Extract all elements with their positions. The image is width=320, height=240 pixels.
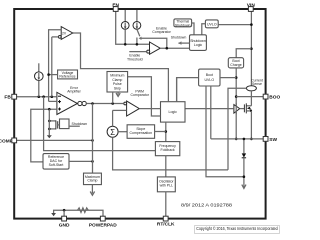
label GND [59, 223, 70, 229]
wire SW line [211, 138, 263, 140]
wire SS node to ground [48, 109, 50, 135]
pin POWERPAD [100, 216, 105, 221]
wire internal ground net [54, 209, 103, 216]
label EN [112, 3, 119, 9]
svg-text:Foldback: Foldback [160, 148, 174, 152]
boot UVLO block [177, 69, 237, 102]
label Enable Comparator [152, 26, 171, 34]
svg-text:Compensation: Compensation [130, 131, 153, 135]
wire FB input [17, 95, 57, 98]
svg-text:Oscillator: Oscillator [159, 179, 174, 183]
drawing number note [181, 203, 233, 208]
svg-text:Soft-Start: Soft-Start [49, 163, 64, 167]
label VIN [247, 3, 256, 9]
ground [47, 135, 52, 138]
pin EN [113, 7, 118, 12]
label Error Amplifier [67, 86, 81, 94]
svg-text:Clamp: Clamp [112, 78, 122, 82]
transistor Q1 power MOSFET [244, 91, 252, 140]
wire COMP net [17, 104, 94, 174]
resistor R1 gnd to powerpad [78, 208, 89, 213]
wire boot rail vertical [235, 68, 238, 140]
label POWERPAD [89, 223, 117, 229]
svg-text:POWERPAD: POWERPAD [89, 223, 117, 229]
svg-text:Threshold: Threshold [127, 57, 143, 61]
wire boot UVLO sense lines [206, 86, 244, 177]
wire VIN rail down to current sense [250, 12, 253, 86]
shutdown pulldown block [60, 119, 88, 129]
wire FB to frequency foldback [44, 97, 156, 151]
PWM comparator U3 [124, 101, 161, 116]
slope compensation block [127, 125, 166, 139]
current sense element [228, 86, 256, 170]
pin VIN [248, 7, 253, 12]
current source I1 [121, 10, 129, 44]
svg-text:Σ: Σ [110, 128, 115, 137]
svg-text:Copyright © 2016, Texas Instru: Copyright © 2016, Texas Instruments Inco… [196, 226, 278, 231]
wire vref to error amp [49, 100, 57, 102]
label FB [4, 95, 11, 101]
transistor Q2 soft-start discharge [48, 120, 60, 131]
svg-text:Comparator: Comparator [130, 93, 149, 97]
svg-text:RT/CLK: RT/CLK [157, 221, 175, 227]
wire current sense feedback to summer [113, 137, 228, 170]
svg-text:Shutdown: Shutdown [175, 23, 191, 27]
svg-text:2V: 2V [62, 32, 67, 36]
svg-text:with PLL: with PLL [160, 184, 173, 188]
wire min clamp to logic [128, 77, 161, 116]
copyright note [196, 226, 278, 231]
boot charge block [228, 58, 243, 68]
wire EN pin to enable comparator [116, 12, 150, 45]
label RT/CLK [157, 221, 175, 227]
shutdown signal arrow [171, 36, 190, 45]
label PWM Comparator [130, 89, 149, 97]
svg-text:Amplifier: Amplifier [67, 90, 81, 94]
svg-text:Minimum: Minimum [110, 73, 124, 77]
svg-text:SW: SW [269, 137, 277, 143]
svg-text:FB: FB [4, 95, 11, 101]
svg-text:Shutdown: Shutdown [72, 122, 88, 126]
summing node sigma [107, 110, 127, 137]
svg-text:Boot: Boot [206, 73, 213, 77]
enable comparator U1 [129, 42, 189, 54]
oscillator block [157, 177, 175, 216]
current source I3 FB bias [35, 63, 44, 96]
shutdown logic block [190, 35, 207, 51]
maximum clamp block [84, 173, 102, 195]
pin SW [263, 137, 268, 142]
svg-text:Skip: Skip [114, 87, 121, 91]
label Enable Threshold [127, 54, 143, 62]
svg-text:Comparator: Comparator [152, 30, 171, 34]
reference DAC block [43, 154, 94, 170]
wire soft-start DAC to error amp [31, 108, 57, 162]
wire logic to driver [185, 108, 234, 110]
switch control wire from enable comparator output [139, 37, 167, 48]
wire boot UVLO to logic [176, 78, 178, 102]
node EN divider junction dots [124, 43, 138, 46]
wire VIN to boot charge [236, 49, 251, 58]
voltage reference block [47, 70, 77, 79]
UVLO block [202, 20, 252, 35]
diode D1 catch diode [242, 138, 246, 189]
frequency foldback block [155, 142, 179, 177]
label Current Sense [251, 79, 263, 87]
svg-text:UVLO: UVLO [207, 22, 217, 26]
minimum clamp pulse skip block [107, 72, 128, 104]
label COMP [0, 138, 14, 144]
pin BOOT [263, 94, 268, 99]
svg-text:Logic: Logic [194, 43, 203, 47]
wire logic to oscillator chain [165, 122, 168, 142]
pin FB [12, 94, 17, 99]
copyright frame [195, 226, 280, 234]
ground [51, 213, 56, 216]
wire 2V clamp output to logic [73, 33, 169, 102]
label BOOT [269, 95, 283, 101]
svg-text:Shutdown: Shutdown [171, 36, 187, 40]
gate driver U2 [234, 103, 245, 114]
thermal shutdown block [174, 19, 194, 35]
op-amp U5 2V clamp [49, 27, 73, 102]
svg-text:Reference: Reference [59, 75, 75, 79]
svg-text:Logic: Logic [169, 110, 178, 114]
pin COMP [12, 138, 17, 143]
label SW [269, 137, 277, 143]
pin RT/CLK [163, 216, 168, 221]
switch on I2 [137, 29, 140, 44]
pin GND [62, 216, 67, 221]
wire BOOT line [236, 96, 263, 98]
svg-text:Clamp: Clamp [87, 179, 97, 183]
svg-text:Pulse: Pulse [113, 82, 122, 86]
current source I2 (hysteresis) [133, 10, 141, 29]
IC boundary frame [14, 9, 265, 219]
svg-text:BOOT: BOOT [269, 95, 280, 101]
logic block [161, 102, 186, 122]
error amplifier U4 [57, 92, 86, 114]
svg-text:GND: GND [59, 223, 70, 229]
svg-text:Charge: Charge [230, 63, 242, 67]
wire error amp output to PWM comparator [86, 102, 124, 105]
svg-text:UVLO: UVLO [205, 78, 215, 82]
svg-text:8/9/ 2012 A 0192788: 8/9/ 2012 A 0192788 [181, 203, 233, 208]
